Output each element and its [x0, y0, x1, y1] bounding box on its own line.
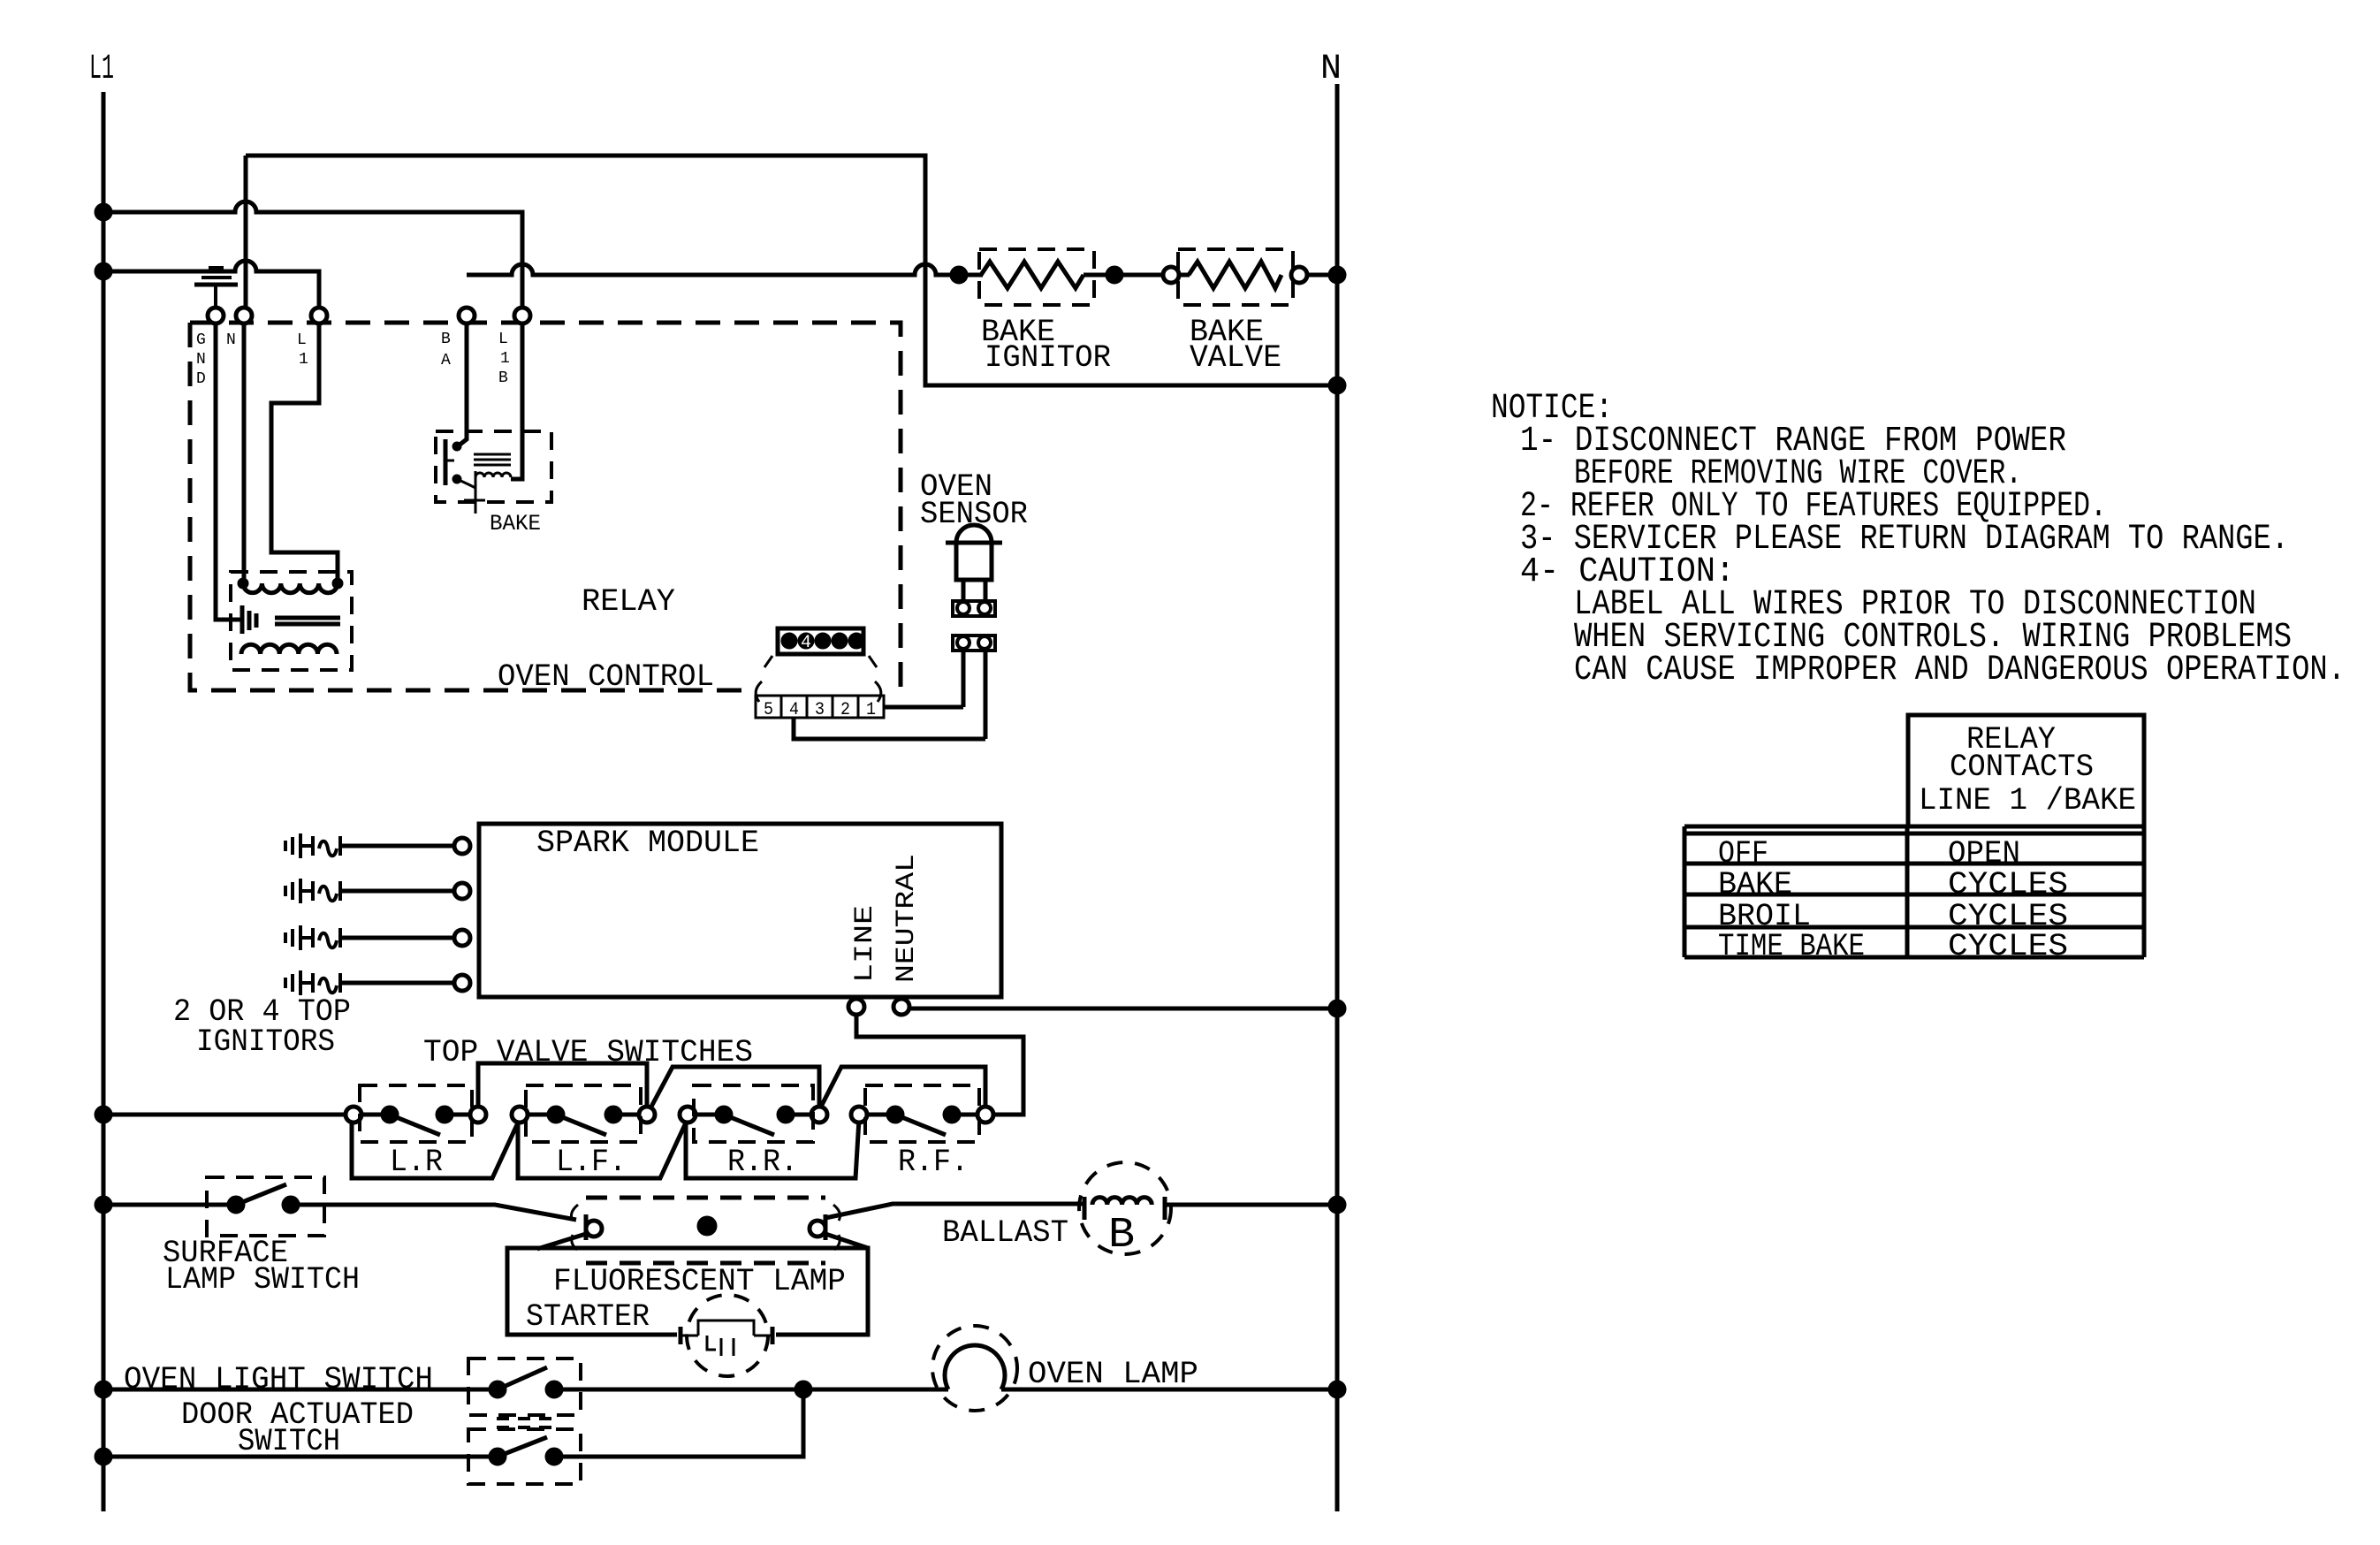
node junction dot on L1 (oven light row) [95, 1381, 112, 1398]
relay BAKE actuator cross [464, 471, 485, 514]
svg-text:1: 1 [866, 700, 876, 720]
table header box [1908, 715, 2144, 826]
label BA terminal [441, 331, 451, 369]
terminal bake valve left circle [1163, 267, 1179, 283]
svg-text:4: 4 [801, 633, 811, 653]
label DOOR ACTUATED [181, 1397, 414, 1433]
label BAKE relay [490, 511, 541, 537]
wire right electrode to ballast [825, 1204, 1084, 1218]
svg-text:L.R: L.R [390, 1145, 443, 1180]
igniter symbol 3 [285, 925, 340, 950]
svg-text:LINE: LINE [850, 905, 880, 983]
node dot bake ignitor right [1106, 266, 1123, 284]
node junction dot on L1 (surface lamp row) [95, 1196, 112, 1214]
transformer secondary winding [241, 644, 337, 654]
wire oven lamp to N rail [1001, 1388, 1333, 1392]
transformer T1 dashed box [231, 572, 352, 670]
wire BA terminal to relay contact [459, 323, 467, 445]
net L1 label [89, 49, 114, 89]
wire L1B terminal to relay coil [511, 323, 522, 479]
label R.R. [727, 1145, 798, 1180]
label BALLAST [942, 1215, 1068, 1251]
connector plug contact dots [781, 633, 864, 649]
label R.F. [898, 1145, 969, 1180]
svg-text:B: B [498, 369, 508, 387]
svg-text:BAKE: BAKE [1718, 867, 1792, 902]
terminal spark module input 3 [454, 930, 470, 946]
label B (ballast) [1108, 1212, 1135, 1260]
wire BA terminal corner to ignitor row with hops [467, 264, 950, 275]
label LINE 1 /BAKE [1919, 783, 2136, 818]
svg-text:IGNITOR: IGNITOR [985, 340, 1111, 376]
svg-text:N: N [196, 351, 206, 369]
oven sensor bulb dome [946, 525, 1002, 543]
wire valve to N rail [1307, 273, 1333, 278]
table row OFF [1718, 836, 2020, 871]
wire dot to ignitor [967, 273, 983, 278]
terminal bake valve right circle [1291, 267, 1307, 283]
connector plug ticks [764, 656, 877, 667]
wire L1 to door switch [103, 1455, 491, 1459]
oven control dashed enclosure [190, 323, 901, 690]
oven sensor stem [963, 580, 985, 601]
svg-text:LAMP SWITCH: LAMP SWITCH [165, 1262, 360, 1298]
resistor BAKE IGNITOR zigzag [981, 262, 1084, 288]
wire surface switch to fluorescent lamp [291, 1205, 576, 1220]
svg-text:OVEN LIGHT SWITCH: OVEN LIGHT SWITCH [124, 1362, 433, 1397]
wire sensor pin A down [962, 651, 966, 707]
label RELAY [582, 584, 675, 620]
relay BAKE upper contact dot [452, 442, 461, 451]
svg-text:VALVE: VALVE [1190, 340, 1281, 376]
label L1 terminal [297, 331, 308, 369]
svg-text:1: 1 [299, 351, 308, 369]
svg-text:A: A [441, 352, 451, 369]
fluorescent lamp right electrode [810, 1205, 840, 1250]
label SURFACE [163, 1236, 288, 1271]
label IGNITOR [985, 340, 1111, 376]
label SENSOR [920, 497, 1028, 532]
transformer core lines [275, 618, 340, 624]
switch DOOR ACTUATED dashed box [468, 1429, 581, 1484]
transformer primary left dot [238, 578, 248, 589]
resistor BAKE VALVE zigzag [1189, 262, 1281, 288]
switch gang linkage dashes [497, 1419, 554, 1427]
transformer shield bars [242, 605, 256, 634]
ground symbol [194, 268, 238, 308]
oven sensor body [956, 543, 992, 580]
switch SURFACE LAMP dashed box [207, 1177, 324, 1236]
node junction dot (door switch tie) [795, 1381, 812, 1398]
svg-text:1: 1 [500, 350, 510, 368]
wire igniter 2 to spark module [340, 889, 454, 894]
svg-text:FLUORESCENT LAMP: FLUORESCENT LAMP [553, 1264, 846, 1299]
label L.F. [556, 1145, 627, 1180]
starter dashed circle [687, 1295, 768, 1376]
svg-text:OVEN CONTROL: OVEN CONTROL [498, 659, 714, 695]
svg-text:CONTACTS: CONTACTS [1950, 750, 2094, 785]
wire from L1 to oven-control L1 terminal with hop [103, 261, 319, 308]
spark module box [479, 824, 1001, 997]
svg-text:LINE 1 /BAKE: LINE 1 /BAKE [1919, 783, 2136, 818]
label FLUORESCENT LAMP [553, 1264, 846, 1299]
label BAKE (valve) [1190, 315, 1264, 350]
node junction dot on L1 (valve switch row) [95, 1106, 112, 1123]
switch L.R contacts [346, 1085, 486, 1142]
svg-text:B: B [441, 331, 451, 348]
wire spark module LINE to R.F. switch [856, 1015, 1023, 1115]
svg-text:NEUTRAL: NEUTRAL [892, 854, 922, 983]
igniter symbol 4 [285, 970, 340, 995]
svg-text:BAKE: BAKE [490, 511, 541, 537]
fluorescent lamp left electrode [571, 1205, 602, 1250]
terminal spark module LINE [848, 999, 864, 1015]
svg-text:STARTER: STARTER [526, 1299, 650, 1335]
wire elevated link R.R to R.F [821, 1067, 985, 1107]
terminal spark module input 4 [454, 975, 470, 991]
svg-text:OFF: OFF [1718, 836, 1768, 871]
label STARTER [526, 1299, 650, 1335]
wire door switch up to oven lamp row [554, 1398, 803, 1457]
table row BAKE [1718, 867, 2068, 902]
svg-text:L: L [498, 331, 508, 348]
wire elevated link L.F to R.R [651, 1067, 819, 1107]
switch L.F contacts [512, 1085, 655, 1142]
wire top loop from oven-control N terminal to N rail [246, 156, 1334, 385]
label OVEN LAMP [1028, 1357, 1198, 1392]
relay BAKE armature bar [445, 439, 454, 485]
switch R.R label box [686, 1119, 859, 1178]
terminal spark module NEUTRAL [893, 999, 909, 1015]
relay BAKE dashed box [436, 431, 551, 502]
label GND [196, 331, 206, 388]
node junction dot on N rail (oven lamp row) [1328, 1381, 1346, 1398]
switch DOOR ACTUATED contacts [489, 1437, 563, 1465]
connector plug numeral 4 [801, 633, 811, 653]
connector plug body [778, 628, 863, 654]
wire vertical from top loop to oven-control N terminal [244, 156, 248, 308]
switch L.F label box [518, 1119, 688, 1178]
svg-text:L: L [297, 331, 307, 349]
wire from L1 to oven-control L1B terminal with hop over N-terminal wire [103, 202, 522, 308]
svg-text:CAN CAUSE IMPROPER AND DANGERO: CAN CAUSE IMPROPER AND DANGEROUS OPERATI… [1574, 651, 2346, 690]
svg-text:IGNITORS: IGNITORS [196, 1024, 335, 1060]
wire right electrode to starter box [825, 1234, 868, 1248]
fluorescent lamp tube dashed outline [586, 1198, 825, 1263]
svg-text:D: D [196, 370, 206, 388]
terminal L1 circle [311, 308, 327, 323]
label OVEN LIGHT SWITCH [124, 1362, 433, 1397]
wire GND terminal to transformer shield [216, 323, 240, 620]
net N label [1320, 49, 1342, 89]
node junction dot on N rail (bake row return) [1328, 377, 1346, 394]
label TOP VALVE SWITCHES [423, 1035, 753, 1070]
oven lamp dashed circle [932, 1326, 1017, 1411]
transformer primary winding [243, 583, 338, 593]
wire left electrode to starter box [537, 1234, 586, 1249]
relay BAKE core lines [474, 454, 511, 465]
switch OVEN LIGHT contacts [489, 1367, 563, 1398]
oven sensor lower connector [953, 636, 995, 651]
svg-text:N: N [1320, 49, 1342, 89]
switch R.R contacts [680, 1085, 827, 1142]
ballast dashed circle [1079, 1162, 1171, 1254]
terminal spark module input 2 [454, 883, 470, 899]
wire into valve [1179, 273, 1190, 278]
svg-text:RELAY: RELAY [582, 584, 675, 620]
label L1B terminal [498, 331, 510, 387]
wire L1 to surface lamp switch [103, 1203, 228, 1207]
label SPARK MODULE [536, 826, 759, 861]
label VALVE [1190, 340, 1281, 376]
wire dot to bake valve terminal [1123, 273, 1163, 278]
resistor BAKE IGNITOR dashed box [979, 249, 1094, 305]
svg-text:L.F.: L.F. [556, 1145, 627, 1180]
note NOTICE block [1491, 389, 2346, 690]
label BAKE (ignitor) [981, 315, 1055, 350]
wire connector pin 4 to sensor [794, 718, 985, 739]
wire oven light switch to lamp [554, 1388, 948, 1392]
table grid [1684, 826, 2144, 957]
switch SURFACE LAMP contacts [227, 1184, 300, 1214]
wire connector pin 1 to sensor [884, 705, 963, 710]
label L.R [390, 1145, 443, 1180]
switch R.F contacts [851, 1085, 993, 1142]
wire L1 terminal to transformer primary [271, 323, 338, 580]
wire N rail vertical [1335, 84, 1340, 1511]
svg-text:SPARK MODULE: SPARK MODULE [536, 826, 759, 861]
label SWITCH (door) [238, 1424, 340, 1459]
terminal spark module input 1 [454, 838, 470, 854]
svg-text:N: N [226, 331, 236, 349]
node junction dot on L1 (wire to L1 terminal) [95, 263, 112, 280]
wire igniter 4 to spark module [340, 981, 454, 986]
node junction dot on L1 (wire to L1B) [95, 203, 112, 221]
svg-text:R.F.: R.F. [898, 1145, 969, 1180]
svg-text:OVEN LAMP: OVEN LAMP [1028, 1357, 1198, 1392]
label NEUTRAL (rotated) [892, 854, 922, 983]
wire L1 rail vertical [102, 92, 106, 1511]
terminal GND circle [208, 308, 224, 323]
label LINE (rotated) [850, 905, 880, 983]
svg-text:5: 5 [764, 700, 773, 720]
svg-text:SWITCH: SWITCH [238, 1424, 340, 1459]
node junction dot on N rail (ignitor row) [1328, 266, 1346, 284]
table row BROIL [1718, 899, 2068, 934]
label RELAY (table) [1966, 722, 2056, 757]
svg-text:CYCLES: CYCLES [1948, 867, 2068, 902]
svg-text:3: 3 [815, 700, 825, 720]
fluorescent lamp center dot [697, 1216, 717, 1236]
svg-text:G: G [196, 331, 206, 349]
svg-text:R.R.: R.R. [727, 1145, 798, 1180]
starter label box [507, 1248, 868, 1335]
igniter symbol 1 [285, 833, 340, 858]
wire igniter 1 to spark module [340, 844, 454, 849]
relay BAKE coil [475, 473, 511, 477]
label OVEN CONTROL [498, 659, 714, 695]
svg-text:4: 4 [789, 700, 799, 720]
node junction dot on L1 (door switch row) [95, 1448, 112, 1465]
switch L.R label box [352, 1119, 520, 1178]
wire sensor pin B down [984, 651, 988, 739]
wire ballast to N rail [1165, 1203, 1333, 1207]
svg-text:2: 2 [840, 700, 850, 720]
relay BAKE lower contact link [457, 479, 475, 488]
table row TIME BAKE [1718, 929, 2068, 964]
terminal L1B circle [514, 308, 530, 323]
svg-text:L1: L1 [89, 49, 114, 89]
svg-text:OPEN: OPEN [1948, 836, 2020, 871]
label 2 OR 4 TOP [173, 994, 351, 1030]
wire elevated link L.R to L.F [478, 1063, 647, 1107]
wire ignitor to dot [1084, 273, 1106, 278]
igniter symbol 2 [285, 879, 340, 903]
transformer primary right dot [332, 578, 343, 589]
wire igniter 3 to spark module [340, 936, 454, 940]
label IGNITORS [196, 1024, 335, 1060]
relay BAKE lower contact dot [452, 475, 461, 483]
ballast coil [1084, 1197, 1165, 1220]
label CONTACTS [1950, 750, 2094, 785]
svg-text:B: B [1108, 1212, 1135, 1260]
switch OVEN LIGHT dashed box [468, 1359, 581, 1415]
svg-text:CYCLES: CYCLES [1948, 929, 2068, 964]
wire L1 to L.R switch [103, 1113, 346, 1117]
label N terminal [226, 331, 236, 349]
label OVEN (sensor) [920, 469, 992, 505]
node junction dot on N rail (neutral) [1328, 1000, 1346, 1017]
node dot bake ignitor left [950, 266, 968, 284]
oven sensor upper connector [953, 601, 995, 616]
node junction dot on N rail (ballast row) [1328, 1196, 1346, 1214]
connector pin cells 5 4 3 2 1 [756, 696, 884, 720]
starter glow-bottle symbol [681, 1320, 772, 1356]
svg-text:TIME BAKE: TIME BAKE [1718, 929, 1865, 964]
terminal N circle [236, 308, 252, 323]
terminal BA circle [459, 308, 475, 323]
connector receptacle brackets [756, 681, 881, 702]
wire L1 to oven light switch [103, 1388, 491, 1392]
resistor BAKE VALVE dashed box [1178, 249, 1293, 305]
wire spark module NEUTRAL to N rail [909, 1007, 1333, 1011]
svg-text:BALLAST: BALLAST [942, 1215, 1068, 1251]
oven lamp symbol [945, 1345, 1005, 1389]
wire N terminal to transformer primary [242, 323, 247, 580]
label LAMP SWITCH [165, 1262, 360, 1298]
